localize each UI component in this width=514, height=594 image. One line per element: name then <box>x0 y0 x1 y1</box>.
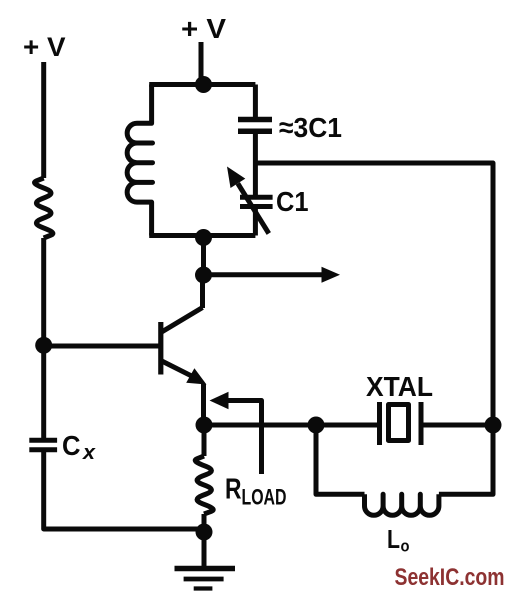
node crystal right <box>485 417 502 434</box>
svg-text:≈3C1: ≈3C1 <box>279 112 342 143</box>
wire tank bottom bar <box>149 233 255 238</box>
svg-text:L: L <box>387 524 400 554</box>
node ground junction <box>196 524 213 541</box>
inductor (tank coil, left branch of tank) <box>127 85 152 236</box>
wire emitter row to crystal <box>204 423 379 428</box>
svg-text:SeekIC.com: SeekIC.com <box>395 564 505 591</box>
resistor (bias resistor, left branch) <box>35 178 53 238</box>
wire from tank top bar down to capacitor 3C1 <box>253 85 258 118</box>
svg-text:XTAL: XTAL <box>366 371 433 402</box>
svg-text:+ V: + V <box>23 32 66 62</box>
ground <box>175 532 236 589</box>
wire Lo loop right side <box>439 425 493 494</box>
transistor Q1 (NPN) <box>161 308 207 385</box>
wire output arrow <box>204 272 325 277</box>
svg-text:C1: C1 <box>276 186 309 217</box>
wire from C1 down to tank bottom bar <box>253 207 258 236</box>
wire base wire to transistor <box>44 344 159 349</box>
svg-text:R: R <box>225 474 242 506</box>
node crystal left <box>308 417 325 434</box>
capacitor Cx <box>29 440 57 450</box>
svg-text:+ V: + V <box>181 13 226 44</box>
node tank bottom <box>195 229 212 246</box>
arrow feedback into emitter <box>224 401 262 475</box>
wire tank bottom to output node <box>201 238 206 276</box>
svg-text:LOAD: LOAD <box>242 485 287 510</box>
wire left branch from resistor down to capacitor Cx <box>41 238 46 440</box>
wire between 3C1 and C1 <box>253 131 258 197</box>
svg-text:x: x <box>82 442 96 464</box>
wire emitter drop <box>201 384 206 425</box>
wire Lo loop left side <box>316 425 365 494</box>
node emitter <box>196 417 213 434</box>
svg-text:C: C <box>62 430 81 461</box>
node tank top <box>195 76 212 93</box>
arrow through C1 (variable symbol) <box>238 183 269 233</box>
wire tank top bar <box>149 82 255 87</box>
node output <box>195 267 212 284</box>
node base junction on left branch <box>35 337 52 354</box>
svg-text:o: o <box>401 537 410 556</box>
wire from Cx down and along the bottom to ground node <box>44 450 204 529</box>
capacitor C1 (variable) <box>240 197 273 206</box>
wire collector riser <box>200 275 205 308</box>
wire tank supply stub <box>199 42 204 85</box>
resistor R_LOAD <box>202 425 207 456</box>
inductor Lo <box>365 494 439 515</box>
wire left supply stub down to resistor <box>41 62 46 178</box>
wire crystal right lead <box>421 423 493 428</box>
wire feedback top: junction to right rail <box>255 163 493 425</box>
crystal XTAL <box>380 402 422 445</box>
capacitor ~3C1 <box>238 120 272 132</box>
